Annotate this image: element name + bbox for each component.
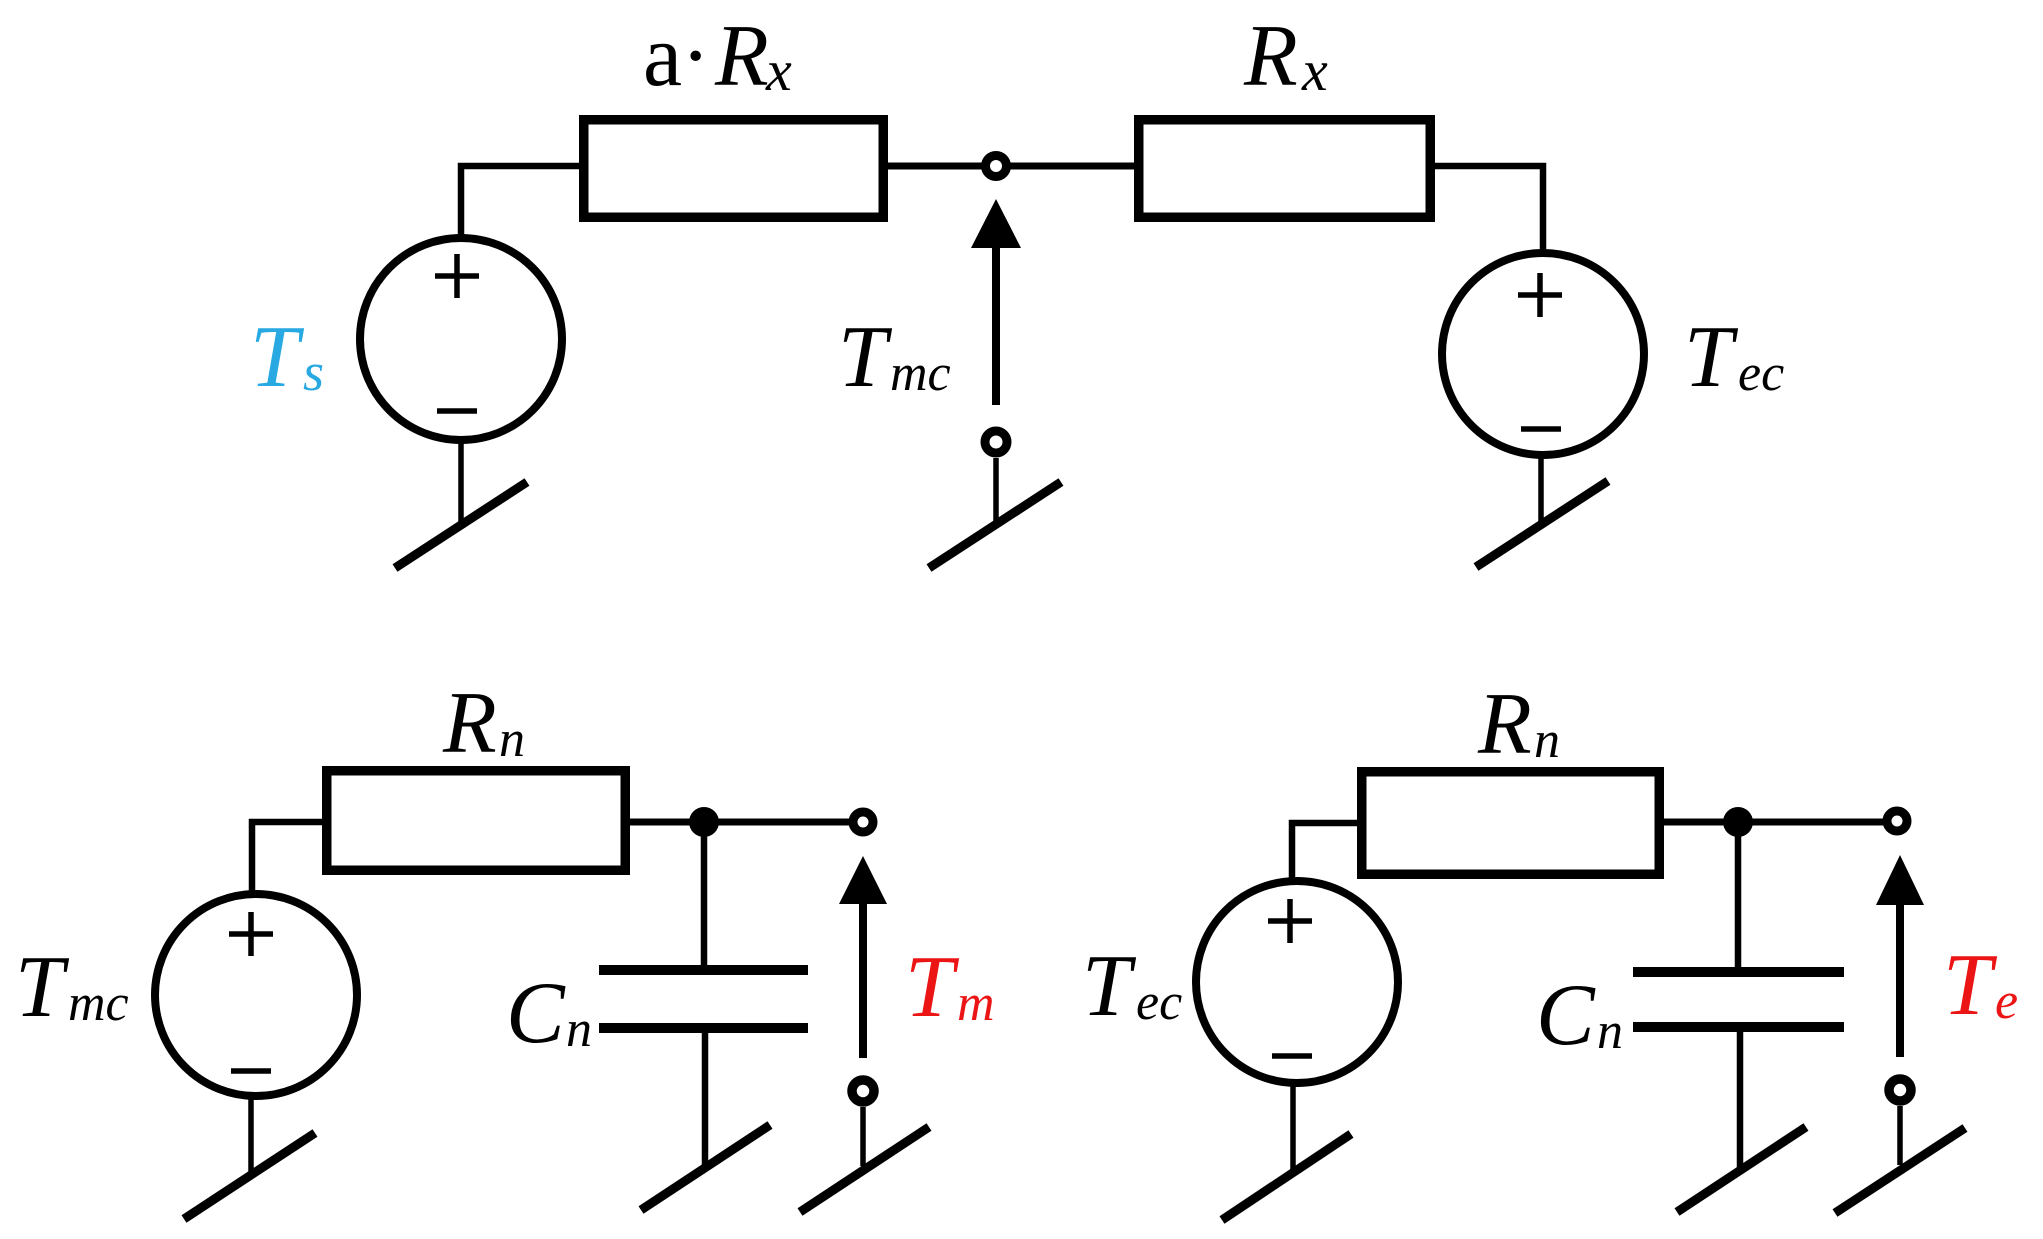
lower terminal of Tmc (open circle) xyxy=(985,431,1007,453)
wire a·Rx to node Tmc xyxy=(888,163,982,170)
wire Rn to output terminal Tm xyxy=(630,819,849,826)
voltage source Ts xyxy=(360,238,562,440)
capacitor Cn (left) top lead xyxy=(701,830,708,966)
svg-text:R: R xyxy=(714,8,769,105)
label Ts xyxy=(250,309,324,406)
label Cn (right) xyxy=(1536,967,1623,1064)
svg-text:T: T xyxy=(1684,309,1739,406)
capacitor Cn (right) plates xyxy=(1633,972,1844,1027)
svg-text:x: x xyxy=(1301,38,1328,103)
ground below Ts xyxy=(395,443,527,568)
arrow Tmc (up) xyxy=(971,199,1021,405)
svg-text:n: n xyxy=(1597,1003,1623,1060)
voltage source Tmc (bottom left) xyxy=(155,894,357,1096)
label Tm (red) xyxy=(905,939,995,1036)
svg-text:T: T xyxy=(905,939,960,1036)
terminal Tm (open circle) xyxy=(853,812,873,832)
resistor Rx xyxy=(1139,120,1431,218)
ground below capacitor Cn (right) xyxy=(1677,1127,1806,1212)
resistor a·Rx xyxy=(584,120,884,218)
voltage source Tec (top) xyxy=(1442,253,1644,455)
label Tmc (bottom left) xyxy=(15,939,129,1036)
svg-text:m: m xyxy=(957,975,995,1032)
voltage source Tec (bottom right) xyxy=(1196,881,1398,1083)
capacitor Cn (right) bottom lead xyxy=(1737,1032,1744,1168)
svg-text:n: n xyxy=(499,711,525,768)
svg-text:mc: mc xyxy=(890,345,951,402)
arrow Te (up) xyxy=(1876,855,1924,1057)
wire Rx to Tec source xyxy=(1435,166,1543,253)
svg-text:T: T xyxy=(1943,937,1998,1034)
label Rx xyxy=(1243,8,1328,105)
svg-text:T: T xyxy=(1082,938,1137,1035)
ground below terminal Tm xyxy=(800,1107,929,1212)
label Tec (top) xyxy=(1684,309,1784,406)
node Tmc terminal (open circle) xyxy=(986,156,1007,177)
ground below Tec (top) xyxy=(1476,453,1608,567)
svg-text:R: R xyxy=(442,675,497,772)
label Tmc (top) xyxy=(838,309,951,406)
ground below node Tmc xyxy=(929,458,1061,568)
svg-text:T: T xyxy=(15,939,70,1036)
svg-text:R: R xyxy=(1243,8,1298,105)
label Rn (left) xyxy=(442,675,525,772)
svg-text:C: C xyxy=(1536,967,1596,1064)
svg-text:T: T xyxy=(250,309,305,406)
label Rn (right) xyxy=(1477,676,1560,773)
junction node (left) xyxy=(689,807,719,837)
svg-text:e: e xyxy=(1995,973,2018,1030)
resistor Rn (right) xyxy=(1362,772,1660,875)
label Te (red) xyxy=(1943,937,2018,1034)
wire Ts to a·Rx xyxy=(461,166,582,237)
svg-text:C: C xyxy=(506,965,566,1062)
svg-text:n: n xyxy=(566,1001,592,1058)
wire Rn to output terminal Te xyxy=(1664,819,1883,826)
svg-text:mc: mc xyxy=(68,975,129,1032)
svg-text:ec: ec xyxy=(1738,345,1784,402)
svg-text:n: n xyxy=(1534,712,1560,769)
svg-text:·: · xyxy=(681,8,710,105)
resistor Rn (left) xyxy=(327,771,626,871)
wire Tmc source to Rn xyxy=(252,822,322,894)
ground below capacitor Cn (left) xyxy=(641,1125,770,1210)
ground below Tec source (right) xyxy=(1222,1082,1351,1220)
junction node (right) xyxy=(1723,807,1753,837)
ground below terminal Te xyxy=(1835,1106,1965,1213)
svg-text:R: R xyxy=(1477,676,1532,773)
capacitor Cn (left) bottom lead xyxy=(702,1033,709,1167)
ground below Tmc source xyxy=(184,1095,315,1219)
capacitor Cn (left) plates xyxy=(599,970,808,1028)
wire Tec source to Rn xyxy=(1292,823,1357,881)
wire node Tmc to Rx xyxy=(1010,163,1134,170)
terminal Te (open circle) xyxy=(1887,811,1907,831)
label Cn (left) xyxy=(506,965,592,1062)
lower terminal of Te (open circle) xyxy=(1889,1079,1911,1101)
svg-text:a: a xyxy=(643,8,682,105)
svg-text:ec: ec xyxy=(1136,974,1182,1031)
label a·Rx xyxy=(643,8,792,105)
arrow Tm (up) xyxy=(839,856,887,1058)
svg-text:T: T xyxy=(838,309,893,406)
capacitor Cn (right) top lead xyxy=(1735,830,1742,967)
lower terminal of Tm (open circle) xyxy=(852,1080,874,1102)
label Tec (bottom right) xyxy=(1082,938,1182,1035)
svg-text:s: s xyxy=(303,342,324,402)
svg-text:x: x xyxy=(765,38,792,103)
